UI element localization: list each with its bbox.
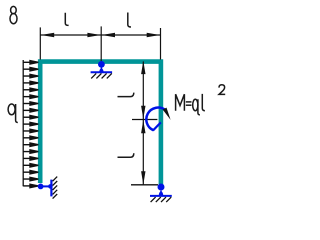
label q bbox=[8, 104, 18, 123]
label M=ql^2 bbox=[176, 85, 226, 115]
vert dim arrow top (up) bbox=[141, 61, 145, 74]
top dim arrow right bbox=[147, 33, 160, 37]
bottom tick bbox=[131, 184, 158, 186]
vert dim arrow bottom (down) bbox=[141, 171, 145, 184]
top dimension line bbox=[40, 34, 160, 36]
moment arc radial start line bbox=[153, 122, 161, 130]
label l (upper segment, rotated) bbox=[118, 93, 134, 97]
top dimension: extension line middle bbox=[100, 26, 102, 61]
top dim arrow left bbox=[41, 33, 54, 37]
distributed load q : arrows bbox=[23, 61, 38, 188]
label l (top-right span) bbox=[128, 13, 131, 28]
top dim arrows middle bbox=[87, 33, 100, 37]
bottom left pin support (rotated) bbox=[38, 177, 58, 199]
right vertical dimension line bbox=[142, 62, 144, 185]
label l (lower segment, rotated) bbox=[118, 153, 134, 157]
label l (top-left span) bbox=[65, 13, 68, 26]
distributed load q : tail line bbox=[22, 60, 24, 186]
frame (teal members) bbox=[40, 62, 161, 185]
label 8 (problem number) bbox=[10, 6, 17, 23]
vert dim arrows middle bbox=[141, 106, 145, 119]
top dimension: extension line left bbox=[39, 27, 41, 59]
moment arrowhead bbox=[163, 108, 171, 120]
middle tick bbox=[132, 119, 157, 121]
moment arc M bbox=[146, 108, 165, 131]
top dimension: extension line right bbox=[160, 28, 162, 60]
top middle roller support bbox=[91, 61, 113, 78]
bottom right roller support bbox=[150, 184, 172, 203]
